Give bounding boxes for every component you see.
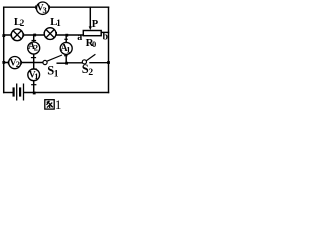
svg-text:1: 1 xyxy=(54,70,59,80)
ammeter A2 xyxy=(28,41,40,54)
rheostat R0 box xyxy=(83,31,101,36)
label L1 xyxy=(50,16,61,28)
junction dot between lamps xyxy=(33,34,36,37)
terminal tick A1 bottom xyxy=(64,55,68,57)
wire slider stem xyxy=(89,7,91,27)
switch S2 pivot xyxy=(82,60,86,64)
switch S1 blade xyxy=(47,55,62,61)
switch S2 blade xyxy=(86,54,95,60)
terminal tick V1 bottom xyxy=(31,84,36,86)
svg-text:2: 2 xyxy=(20,18,25,28)
junction dot after L1 xyxy=(65,34,68,37)
svg-text:2: 2 xyxy=(16,59,20,69)
battery xyxy=(14,84,24,101)
label S1 xyxy=(47,63,59,79)
svg-text:2: 2 xyxy=(34,42,38,52)
terminal tick L1 left xyxy=(43,32,45,36)
voltmeter V3 xyxy=(37,2,49,15)
terminal tick L1 right xyxy=(55,32,57,36)
label S2 xyxy=(82,62,94,78)
svg-text:2: 2 xyxy=(88,68,93,78)
terminal tick V3 right xyxy=(48,5,50,9)
junction dot left lamp row xyxy=(2,34,5,37)
lamp L1 xyxy=(44,28,56,40)
terminal tick L2 left xyxy=(10,33,12,37)
wire A1 vertical branch xyxy=(65,35,67,63)
terminal tick A2 top xyxy=(32,40,37,42)
wire A2-V1 vertical branch xyxy=(33,35,35,93)
junction dot left voltmeter row xyxy=(2,61,5,64)
wire right border xyxy=(108,7,110,92)
svg-text:1: 1 xyxy=(34,71,38,81)
wire lamp row xyxy=(4,34,84,36)
wire voltmeter row xyxy=(4,62,44,64)
terminal tick A1 top xyxy=(64,38,68,40)
svg-text:0: 0 xyxy=(92,39,96,49)
junction dot right border S2 xyxy=(107,61,110,64)
svg-text:3: 3 xyxy=(43,5,47,15)
wire bottom right xyxy=(24,92,109,94)
terminal tick V3 left xyxy=(35,5,37,9)
svg-text:P: P xyxy=(92,19,99,30)
voltmeter V1 xyxy=(28,69,40,81)
wire rheostat right to border xyxy=(101,31,108,33)
slider arrowhead P xyxy=(89,26,92,30)
wire S2 fixed contact to right border xyxy=(90,62,109,64)
svg-text:b: b xyxy=(103,32,109,43)
terminal tick V2 left xyxy=(7,61,9,65)
junction dot bottom V1 xyxy=(33,92,36,95)
wire top xyxy=(4,6,109,8)
label figure caption 图1 xyxy=(45,97,62,112)
terminal tick V1 top xyxy=(31,68,36,70)
terminal tick V2 right xyxy=(20,61,22,65)
label L2 xyxy=(14,16,25,28)
switch S1 pivot xyxy=(43,60,47,64)
wire left border xyxy=(3,7,5,92)
svg-text:a: a xyxy=(77,32,82,43)
wire bottom left xyxy=(4,92,13,94)
wire S1 fixed contact xyxy=(57,62,66,64)
svg-text:1: 1 xyxy=(66,44,70,54)
terminal tick L2 right xyxy=(23,33,25,37)
wire S1 to S2 segment xyxy=(66,62,82,64)
lamp L2 xyxy=(11,29,23,41)
svg-text:1: 1 xyxy=(56,18,61,28)
label R0 xyxy=(86,37,97,49)
ammeter A1 xyxy=(60,42,72,54)
junction dot below A1 xyxy=(65,62,68,65)
svg-text:1: 1 xyxy=(55,97,62,112)
terminal tick A2 bottom xyxy=(31,57,36,59)
voltmeter V2 xyxy=(9,57,21,70)
